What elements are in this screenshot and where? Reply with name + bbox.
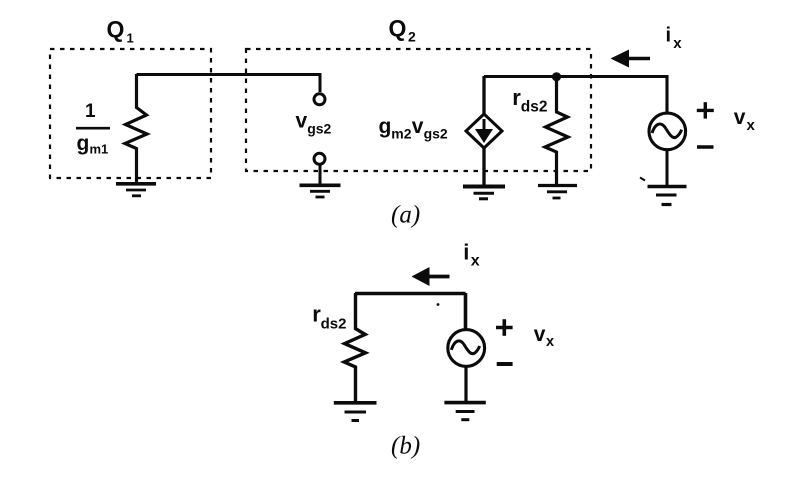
resistor 1/gm1 xyxy=(125,74,147,183)
ground under rds2 (part b) xyxy=(334,403,377,421)
ground under 1/gm1 xyxy=(116,184,156,196)
svg-text:gs2: gs2 xyxy=(307,121,331,137)
resistor rds2 (part b) xyxy=(344,293,365,401)
label gm2vgs2 xyxy=(379,115,448,142)
svg-text:ds2: ds2 xyxy=(321,316,347,333)
ground under rds2 (part a) xyxy=(538,186,577,199)
svg-text:x: x xyxy=(471,253,480,270)
svg-text:x: x xyxy=(673,35,682,52)
plus polarity mark (part b) xyxy=(496,319,513,336)
transistor Q2 model boundary (dashed box) xyxy=(246,49,591,171)
svg-text:i: i xyxy=(463,240,469,265)
svg-text:2: 2 xyxy=(408,29,416,45)
ground under vgs2 terminal xyxy=(300,185,341,197)
plus polarity mark (part a) xyxy=(697,102,714,118)
vgs2 top terminal (open circle) xyxy=(314,94,325,105)
voltage source vx (part b) xyxy=(448,330,485,367)
label vx (part b) xyxy=(534,323,554,350)
label vx (part a) xyxy=(734,106,756,134)
label rds2 (part a) xyxy=(512,85,547,116)
vgs2 bottom terminal (open circle) xyxy=(314,153,325,164)
node junction dot xyxy=(552,72,561,81)
wire from 1/gm1 resistor top to vgs2 top terminal xyxy=(137,75,321,93)
controlled current source gm2*vgs2 (diamond with arrow) xyxy=(466,76,502,185)
minus polarity mark (part a) xyxy=(697,145,714,148)
svg-text:Q: Q xyxy=(107,16,125,42)
svg-text:v: v xyxy=(296,110,308,133)
current ix arrow (part a) xyxy=(611,50,651,68)
voltage source vx (part a) xyxy=(649,113,686,150)
svg-text:Q: Q xyxy=(389,15,407,41)
svg-text:v: v xyxy=(534,323,546,346)
svg-text:i: i xyxy=(666,25,672,47)
value label 1/gm1 xyxy=(76,101,110,157)
svg-text:m1: m1 xyxy=(90,142,109,157)
svg-text:g: g xyxy=(77,132,90,155)
svg-text:x: x xyxy=(546,334,554,350)
svg-text:ds2: ds2 xyxy=(521,99,548,116)
label rds2 (part b) xyxy=(312,302,346,333)
svg-text:v: v xyxy=(412,115,424,138)
svg-text:gs2: gs2 xyxy=(424,126,448,142)
ground under controlled source xyxy=(463,187,505,199)
resistor rds2 (part a) xyxy=(545,77,568,184)
minus polarity mark (part b) xyxy=(497,362,513,366)
svg-text:(a): (a) xyxy=(391,202,420,229)
svg-text:1: 1 xyxy=(127,31,134,46)
label ix (part b) xyxy=(463,240,480,270)
transistor Q1 model boundary (dashed box) xyxy=(50,49,211,178)
current ix arrow (part b) xyxy=(412,267,450,286)
stray scan tick near ground (part a) xyxy=(640,178,645,181)
label Q2 xyxy=(389,15,417,45)
label Q1 xyxy=(107,16,134,46)
wire top of part b circuit xyxy=(355,292,466,295)
svg-text:g: g xyxy=(379,115,392,138)
label vgs2 xyxy=(296,110,332,137)
wire from vx source bottom to ground (part b) xyxy=(464,366,467,401)
ground under vx source (part b) xyxy=(444,403,485,420)
stray speck (part b) xyxy=(437,303,440,306)
label ix (part a) xyxy=(666,25,683,52)
svg-text:(b): (b) xyxy=(391,433,420,460)
ground under vx source (part a) xyxy=(648,187,687,205)
svg-text:v: v xyxy=(734,106,746,129)
svg-text:1: 1 xyxy=(85,101,96,122)
wire from top wire corner down to vx source (part b) xyxy=(464,293,468,329)
wire from vgs2 bottom terminal to ground xyxy=(319,165,322,184)
svg-text:x: x xyxy=(747,117,756,134)
svg-text:m2: m2 xyxy=(391,126,411,142)
wire from vx source bottom to ground (part a) xyxy=(666,150,669,186)
wire from controlled source top across node to vx source top xyxy=(484,77,667,113)
